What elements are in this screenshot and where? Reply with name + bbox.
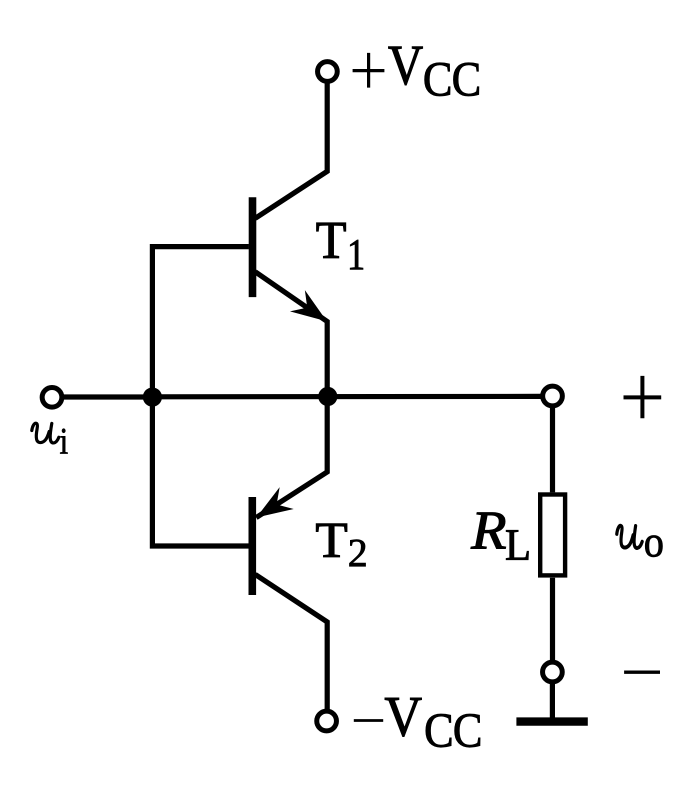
- label R_L letter R: [471, 513, 506, 549]
- node A junction dot (input node): [143, 388, 162, 407]
- label -VCC subscript CC: [426, 714, 451, 747]
- ground symbol: [516, 717, 587, 725]
- transistor T2 emitter arrowhead: [249, 487, 293, 528]
- wire T1 collector to +VCC: [255, 83, 327, 218]
- label T1 subscript 1: [350, 240, 363, 269]
- wire input to node A: [63, 394, 152, 399]
- transistor T1 base bar: [249, 197, 257, 297]
- label R_L subscript L: [506, 530, 528, 559]
- transistor T2 base bar: [249, 497, 257, 595]
- label output plus sign: [624, 376, 662, 418]
- wire base bus (T1 base, left vertical, T2 base): [152, 247, 249, 546]
- label T2 letter T: [316, 524, 347, 557]
- transistor T1 emitter arrowhead: [290, 290, 334, 332]
- wire output rail node A to output terminal: [152, 394, 541, 400]
- +VCC terminal circle: [318, 62, 338, 82]
- output node junction dot: [318, 387, 337, 406]
- label -VCC letter V: [385, 698, 421, 736]
- wire T1 emitter / output node / T2 emitter: [255, 272, 327, 518]
- wire lower terminal to ground: [550, 683, 555, 718]
- label +VCC plus sign: [353, 53, 385, 88]
- label +VCC letter V: [388, 47, 422, 85]
- label u_o letter u: [617, 526, 642, 548]
- wire resistor RL to lower terminal: [550, 578, 555, 661]
- label output minus sign: [624, 671, 660, 674]
- -VCC terminal circle: [317, 711, 337, 731]
- resistor R_L body: [540, 495, 565, 576]
- output + terminal circle: [543, 386, 563, 406]
- input terminal circle u_i: [42, 387, 62, 407]
- output - terminal circle: [543, 662, 563, 682]
- label +VCC subscript CC: [425, 63, 450, 96]
- label u_i subscript i: [60, 429, 67, 454]
- label T2 subscript 2: [350, 540, 366, 567]
- label -VCC minus sign: [354, 719, 383, 722]
- wire output terminal to resistor RL: [550, 407, 555, 492]
- wire T2 collector to -VCC: [255, 574, 327, 709]
- label T1 letter T: [317, 223, 346, 258]
- label u_o subscript o: [645, 536, 662, 557]
- label u_i letter u: [32, 423, 59, 443]
